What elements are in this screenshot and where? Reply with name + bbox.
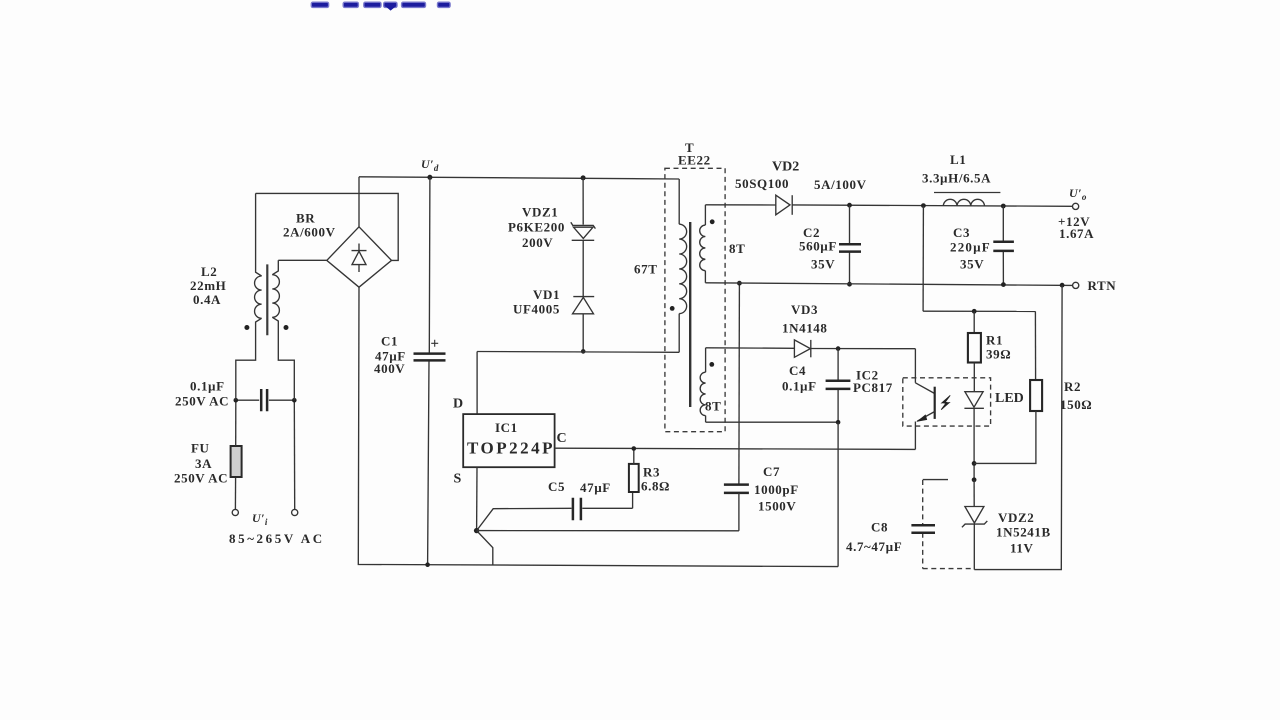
svg-text:P6KE200: P6KE200 [508, 219, 565, 234]
svg-text:1.67A: 1.67A [1059, 226, 1094, 241]
svg-text:R1: R1 [986, 333, 1003, 348]
wire bridge AC1 to L2 right [278, 259, 327, 261]
node RTN right junction [1060, 283, 1065, 288]
svg-text:4.7~47µF: 4.7~47µF [846, 539, 902, 554]
svg-text:EE22: EE22 [678, 153, 711, 168]
svg-text:VD1: VD1 [533, 287, 560, 302]
node C4 bottom bias return [836, 420, 841, 425]
svg-text:150Ω: 150Ω [1060, 397, 1092, 412]
node bias dot [709, 362, 714, 367]
wire S middle to C7 [477, 530, 739, 532]
svg-text:3.3µH/6.5A: 3.3µH/6.5A [922, 170, 991, 185]
wire VDZ1 branch [582, 178, 584, 352]
svg-text:C5: C5 [548, 479, 565, 494]
svg-text:C4: C4 [789, 363, 806, 378]
svg-text:200V: 200V [522, 235, 553, 250]
node R3 top on C line [632, 446, 637, 451]
node C2 bottom [847, 282, 852, 287]
svg-text:6.8Ω: 6.8Ω [641, 479, 670, 494]
svg-text:C3: C3 [953, 225, 970, 240]
svg-text:400V: 400V [374, 361, 405, 376]
svg-text:1N4148: 1N4148 [782, 320, 828, 335]
wire drain line to primary [477, 351, 679, 354]
svg-text:0.1µF: 0.1µF [190, 379, 225, 394]
node secondary return [737, 281, 742, 286]
svg-text:220µF: 220µF [950, 239, 991, 254]
node VDZ1 top [581, 175, 586, 180]
fuse FU [174, 441, 242, 486]
svg-text:250V AC: 250V AC [174, 471, 228, 486]
svg-text:PC817: PC817 [853, 380, 893, 395]
svg-text:2A/600V: 2A/600V [283, 225, 336, 240]
bridge rectifier BR [283, 211, 392, 288]
light arrow between LED and transistor [941, 395, 950, 409]
diode VD1 UF4005 [513, 287, 594, 317]
node C3 top [1001, 204, 1006, 209]
wire D pin [453, 352, 477, 415]
inductor L1 3.3uH [922, 152, 1000, 206]
node VDZ2 top [972, 477, 977, 482]
capacitor C8 dashed optional [846, 480, 974, 569]
node S [474, 528, 479, 533]
svg-text:UF4005: UF4005 [513, 302, 560, 317]
node X-cap right junction [292, 398, 297, 403]
svg-text:VD3: VD3 [791, 302, 818, 317]
svg-text:C8: C8 [871, 519, 888, 534]
wire bias return [706, 421, 839, 423]
capacitor C2 560uF 35V [799, 205, 861, 284]
svg-text:R2: R2 [1064, 379, 1081, 394]
wire S lower to ground rail [477, 531, 493, 565]
wire S to C5 [477, 508, 572, 530]
capacitor C4 0.1uF [782, 349, 850, 423]
svg-text:1000pF: 1000pF [754, 482, 799, 497]
op-amp U1 IC1 TOP224P box [463, 414, 555, 467]
wire +12V rail [792, 205, 1072, 206]
node Vd [421, 157, 439, 180]
svg-text:C: C [557, 431, 567, 446]
capacitor C3 220uF 35V [950, 206, 1014, 285]
svg-text:67T: 67T [634, 261, 657, 276]
wire R1 R2 top line [923, 310, 1035, 312]
wire VDZ2 bottom to RTN riser [974, 285, 1062, 569]
svg-text:50SQ100: 50SQ100 [735, 176, 789, 191]
wire bridge AC2 loop to L2 left [256, 193, 399, 260]
node C2 top [847, 203, 852, 208]
svg-text:LED: LED [995, 391, 1024, 406]
svg-text:VDZ1: VDZ1 [522, 205, 558, 220]
svg-text:1500V: 1500V [758, 499, 796, 514]
diode VD2 50SQ100 [735, 160, 867, 215]
transistor of optocoupler [915, 349, 934, 450]
wire S pin [454, 467, 478, 530]
capacitor X 0.1uF [175, 379, 294, 412]
opto-coupler IC2 PC817 dashed box [853, 367, 991, 426]
node L2 dot right [284, 325, 289, 330]
svg-text:IC1: IC1 [495, 420, 518, 435]
wire C pin line [555, 431, 916, 449]
blue crop marks (cut-off caption) [311, 2, 450, 10]
label L2 [190, 264, 226, 307]
svg-text:1N5241B: 1N5241B [996, 525, 1051, 540]
svg-text:85~265V AC: 85~265V AC [229, 531, 325, 546]
winding primary 67T [634, 179, 687, 352]
choke L2 core [266, 264, 268, 335]
wire top rail Vd [359, 177, 679, 179]
node input label [229, 511, 325, 546]
svg-text:L1: L1 [950, 152, 966, 167]
node X-cap left junction [234, 398, 239, 403]
svg-text:39Ω: 39Ω [986, 347, 1011, 362]
zener VDZ2 1N5241B [962, 480, 1051, 570]
wire secondary return branch [738, 283, 741, 484]
wire N terminal up [293, 400, 295, 509]
svg-text:11V: 11V [1010, 540, 1033, 555]
resistor R2 150ohm [974, 311, 1092, 463]
svg-text:22mH: 22mH [190, 278, 226, 293]
svg-text:0.4A: 0.4A [193, 292, 221, 307]
choke L2 right winding [272, 260, 294, 400]
node C1 bottom [425, 562, 430, 567]
svg-text:250V AC: 250V AC [175, 394, 229, 409]
terminal RTN [1073, 278, 1117, 293]
svg-text:S: S [454, 472, 462, 487]
node secondary dot [710, 219, 715, 224]
svg-text:47µF: 47µF [580, 480, 611, 495]
svg-text:TOP224P: TOP224P [467, 439, 555, 458]
resistor R1 39ohm [968, 311, 1011, 391]
svg-text:8T: 8T [729, 241, 745, 256]
wire fuse to X-cap node [235, 400, 237, 446]
wire C4 return down to primary rail [837, 422, 839, 566]
svg-text:R3: R3 [643, 465, 660, 480]
svg-text:VD2: VD2 [772, 160, 799, 175]
svg-text:D: D [453, 397, 463, 412]
svg-text:C1: C1 [381, 334, 398, 349]
svg-text:560µF: 560µF [799, 238, 837, 253]
svg-text:C7: C7 [763, 464, 780, 479]
svg-text:BR: BR [296, 211, 315, 226]
svg-text:8T: 8T [705, 398, 721, 413]
capacitor C7 1000pF 1500V [724, 464, 799, 531]
choke L2 left winding [236, 193, 262, 400]
svg-text:RTN: RTN [1088, 278, 1117, 293]
wire bridge minus down and bottom rail [358, 287, 838, 566]
terminal output plus [1058, 186, 1094, 241]
terminal input N [292, 509, 298, 515]
node feedback tap [921, 203, 926, 208]
transformer T EE22 dashed box [665, 140, 725, 432]
winding secondary 8T [700, 205, 746, 283]
svg-text:5A/100V: 5A/100V [814, 177, 867, 192]
node VD3 C4 junction [836, 346, 841, 351]
capacitor C1 47uF 400V [374, 177, 446, 564]
transformer core [689, 222, 691, 407]
TVS diode VDZ1 P6KE200 [508, 205, 595, 250]
wire terminal to fuse [234, 477, 236, 509]
node primary dot [670, 306, 675, 311]
svg-text:0.1µF: 0.1µF [782, 379, 817, 394]
node R1 top [972, 309, 977, 314]
wire secondary top lead [705, 204, 775, 206]
winding bias 8T [700, 348, 721, 422]
wire bias top lead to VD3 [706, 347, 795, 350]
svg-text:35V: 35V [811, 257, 835, 272]
node C3 bottom [1001, 282, 1006, 287]
svg-text:FU: FU [191, 441, 210, 456]
diode VD3 1N4148 [782, 302, 915, 358]
wire feedback tap down [922, 206, 924, 312]
node L2 dot left [244, 325, 249, 330]
wire RTN rail [705, 283, 1072, 286]
svg-text:3A: 3A [195, 456, 212, 471]
node VD1 bottom junction [581, 349, 586, 354]
svg-text:VDZ2: VDZ2 [998, 510, 1034, 525]
wire bridge plus to top rail [358, 177, 360, 227]
node LED bottom R2 junction [972, 461, 977, 466]
resistor R3 6.8ohm [629, 449, 670, 509]
LED of optocoupler [964, 391, 1023, 480]
terminal input L [232, 509, 238, 515]
svg-text:35V: 35V [960, 257, 984, 272]
svg-text:L2: L2 [201, 264, 217, 279]
capacitor C5 47uF [548, 479, 633, 520]
